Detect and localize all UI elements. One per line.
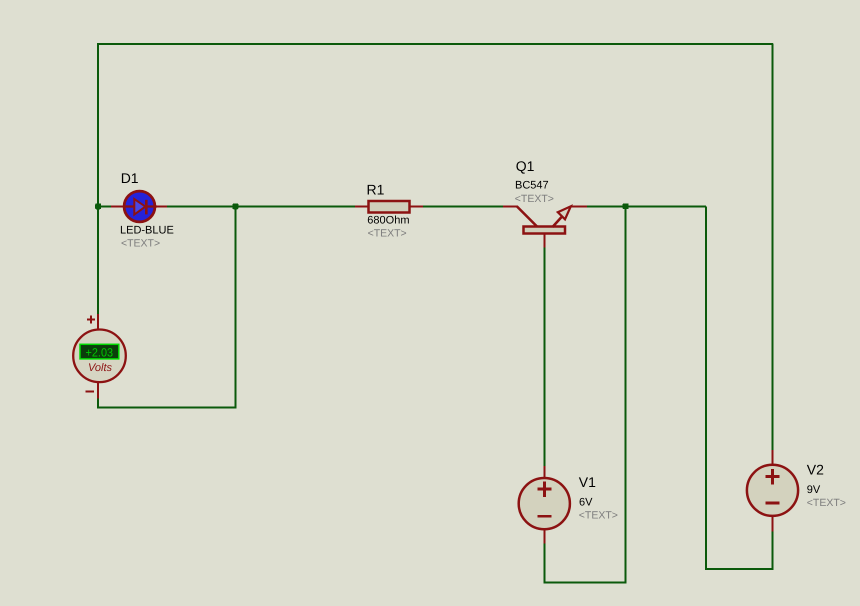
svg-text:<TEXT>: <TEXT> <box>579 509 618 521</box>
svg-text:Volts: Volts <box>88 362 113 374</box>
svg-text:680Ohm: 680Ohm <box>367 215 409 227</box>
svg-text:<TEXT>: <TEXT> <box>515 193 554 205</box>
svg-text:Q1: Q1 <box>516 158 535 174</box>
svg-text:+2.03: +2.03 <box>86 346 114 360</box>
svg-text:9V: 9V <box>807 484 821 496</box>
svg-text:<TEXT>: <TEXT> <box>368 228 407 240</box>
svg-text:D1: D1 <box>121 170 139 186</box>
svg-text:LED-BLUE: LED-BLUE <box>120 225 174 237</box>
svg-text:V1: V1 <box>579 474 596 490</box>
svg-text:BC547: BC547 <box>515 179 549 191</box>
svg-text:6V: 6V <box>579 497 593 509</box>
svg-text:<TEXT>: <TEXT> <box>807 497 846 509</box>
svg-text:R1: R1 <box>367 182 385 198</box>
svg-text:V2: V2 <box>807 462 824 478</box>
svg-text:<TEXT>: <TEXT> <box>121 238 160 250</box>
